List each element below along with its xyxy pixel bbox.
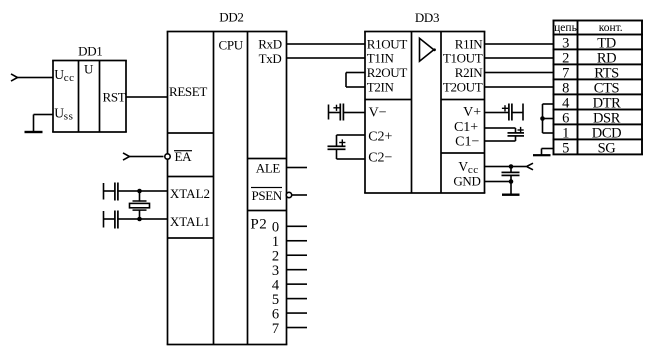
svg-text:цепь: цепь [554, 22, 577, 34]
svg-text:R2OUT: R2OUT [367, 65, 408, 80]
svg-text:T2OUT: T2OUT [443, 79, 483, 94]
svg-text:5: 5 [562, 140, 569, 156]
svg-text:T2IN: T2IN [367, 79, 395, 94]
svg-text:SG: SG [598, 140, 617, 156]
svg-text:8: 8 [562, 80, 569, 96]
svg-text:XTAL2: XTAL2 [170, 186, 210, 201]
svg-text:RTS: RTS [594, 65, 619, 81]
svg-text:7: 7 [562, 65, 569, 81]
svg-text:DSR: DSR [593, 110, 621, 126]
svg-text:RESET: RESET [169, 84, 207, 99]
svg-text:CTS: CTS [594, 80, 620, 96]
svg-text:3: 3 [562, 35, 569, 51]
svg-text:RST: RST [103, 89, 126, 104]
svg-text:2: 2 [562, 50, 569, 66]
svg-text:CPU: CPU [219, 37, 244, 52]
svg-text:DD2: DD2 [219, 10, 243, 25]
svg-text:4: 4 [562, 95, 570, 111]
svg-text:R1OUT: R1OUT [367, 36, 408, 51]
svg-text:DCD: DCD [592, 125, 621, 141]
svg-text:TD: TD [597, 35, 616, 51]
svg-text:DD3: DD3 [415, 10, 439, 25]
svg-text:XTAL1: XTAL1 [170, 214, 210, 229]
svg-text:U: U [84, 61, 94, 76]
svg-text:P2: P2 [250, 217, 267, 233]
svg-text:GND: GND [453, 174, 480, 189]
svg-text:R2IN: R2IN [455, 65, 483, 80]
svg-text:PSEN: PSEN [252, 188, 283, 203]
svg-text:DD1: DD1 [78, 44, 102, 59]
svg-text:6: 6 [562, 110, 569, 126]
svg-text:V−: V− [369, 106, 387, 121]
svg-text:V+: V+ [463, 105, 481, 120]
svg-text:TxD: TxD [259, 51, 282, 66]
svg-text:R1IN: R1IN [455, 36, 483, 51]
svg-text:RD: RD [597, 50, 616, 66]
svg-text:EA: EA [175, 149, 193, 164]
svg-text:C2−: C2− [368, 150, 392, 165]
svg-text:RxD: RxD [258, 37, 282, 52]
svg-text:1: 1 [562, 125, 569, 141]
svg-text:C1+: C1+ [454, 120, 478, 135]
svg-text:C1−: C1− [455, 134, 479, 149]
svg-text:DTR: DTR [593, 95, 622, 111]
svg-text:7: 7 [272, 321, 279, 337]
svg-text:C2+: C2+ [368, 130, 392, 145]
svg-text:ALE: ALE [256, 161, 281, 176]
svg-text:конт.: конт. [599, 22, 623, 34]
svg-text:T1OUT: T1OUT [443, 50, 483, 65]
svg-text:T1IN: T1IN [367, 50, 395, 65]
